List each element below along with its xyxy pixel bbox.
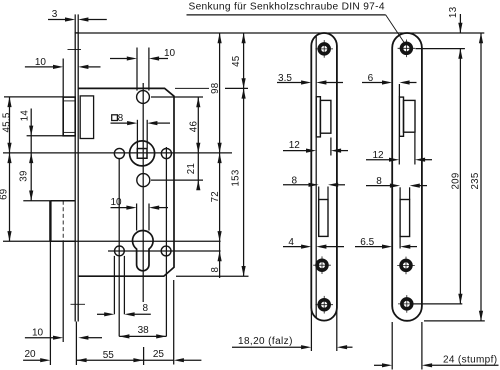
dimension square-8 lines [111,121,171,125]
dimension 14 line [29,109,33,201]
stumpf plate top screw [398,40,416,58]
extension line right screw center down [165,147,167,336]
vertical centerline tick at bottom chain [143,347,145,365]
dimension 69 line [7,153,11,241]
svg-text:69: 69 [0,189,10,200]
faceplate strip left edge [74,33,76,322]
dimension 38 text [138,325,150,336]
dimension 3.5 text [278,73,292,84]
dimension 10 latch lines [25,65,101,69]
extension line 3mm right [77,14,79,32]
dimension square-8 text [118,113,124,124]
svg-text:14: 14 [20,110,31,122]
title underline [187,14,386,16]
dimension 6 lines [362,80,417,84]
extension line latch top left [4,96,63,98]
dimension 8 cylinder text [210,267,221,273]
svg-text:10: 10 [32,328,44,339]
falz plate latch head [320,100,331,133]
dimension 24 stumpf lines [374,363,499,367]
svg-text:55: 55 [103,350,115,361]
dimension 13 text [448,7,459,18]
dimension 3 lines [48,17,107,21]
screw hole left of cylinder [115,246,125,256]
extension line stumpf cutout right up [409,187,411,199]
extension line stumpf latch head right [414,133,416,165]
svg-text:Senkung für Senkholzschraube D: Senkung für Senkholzschraube DIN 97-4 [189,1,385,12]
falz plate middle screw [313,256,331,274]
stumpf plate latch band [399,97,403,136]
dimension 39 text [19,170,30,181]
dimension 38 line [119,334,166,338]
extension line cylinder slot left [136,204,138,231]
dimension 20 text [24,349,36,360]
extension line stumpf plate bottom right [424,320,485,322]
extension line stumpf latch band top [398,84,400,97]
svg-text:12: 12 [289,140,301,151]
dimension 10 top hole lines [110,56,168,60]
extension line faceplate down [75,322,77,366]
extension line through cylinder screw holes [108,250,221,252]
dimension 12 falz text [289,140,301,151]
dimension 12 stumpf text [372,150,384,161]
dimension 18-20 falz text [238,336,293,347]
dimension 153 text [231,169,242,186]
title text Senkung fuer Senkholzschraube DIN 97-4 [189,1,385,12]
dimension 8 cylinder line [218,241,222,278]
dimension 45.5 text [1,112,12,132]
extension line bottom screw center right [412,303,462,305]
extension line cylinder slot right [148,204,150,231]
screw hole right of cylinder [161,246,171,256]
dimension 10 cylinder lines [111,206,169,210]
leader line to countersunk screw [386,15,406,45]
face plate falz outline [311,33,337,321]
extension line latch face [62,59,64,98]
dimension 39 bottom arrow [29,191,33,201]
follower circle [130,141,155,166]
dimension 12 stumpf lines [366,158,432,162]
dimension 21 text [186,163,197,174]
deadbolt top edge [50,200,75,202]
extension line stumpf cutout left down [399,237,401,249]
dimension 12 falz lines [283,149,348,153]
dimension 55 text [103,350,115,361]
dimension 98 line [218,33,222,153]
extension line case bottom right [176,275,249,277]
falz plate bottom screw [315,296,333,314]
faceplate strip right edge [77,33,79,322]
deadbolt face edge [49,201,51,242]
extension line deadbolt face down [49,241,51,365]
screw hole right of follower [161,148,171,158]
dimension 8 bottom text [143,303,149,314]
dimension 72 line [218,153,222,241]
profile cylinder hole [133,230,154,270]
deadbolt bottom edge [50,240,75,242]
dimension 46 text [188,121,199,132]
stumpf plate middle screw [397,257,415,275]
svg-text:21: 21 [186,163,197,174]
svg-text:24 (stumpf): 24 (stumpf) [443,354,497,365]
dimension 21 line [196,153,200,190]
stumpf plate deadbolt cutout [400,200,410,237]
faceplate top edge [75,32,79,34]
svg-text:45.5: 45.5 [1,112,12,132]
dimension 10 bottom lines [25,336,102,340]
svg-text:10: 10 [110,197,122,208]
svg-text:25: 25 [153,349,165,360]
extension line falz latch head right [330,138,332,156]
follower square 8mm [137,149,147,159]
deadbolt retracted dashed line [62,201,64,242]
dimension 98 text [210,83,221,94]
dimension 55 line [76,358,143,362]
extension line dashed bolt line down [62,241,64,342]
dimension square-8 symbol [112,115,118,121]
svg-text:209: 209 [450,172,461,189]
faceplate break tick upper [68,49,82,51]
dimension 3.5 lines [277,80,343,84]
dimension 8 falz text [292,175,298,186]
svg-text:8: 8 [118,113,124,124]
lock case outline [78,88,174,276]
svg-text:10: 10 [35,57,47,68]
dimension 24 stumpf text [443,354,497,365]
dimension 10 latch text [35,57,47,68]
dimension 8 stumpf text [376,176,382,187]
extension line case top right [175,87,248,89]
vertical centerline of lock [142,83,144,302]
falz plate latch band [316,97,320,137]
svg-text:39: 39 [19,170,30,181]
top hole circle [137,91,150,104]
dimension 10 bottom text [32,328,44,339]
extension line hole below follower right [151,179,203,181]
stumpf plate bottom screw [398,295,416,313]
hole below follower [137,174,150,187]
falz step line [315,36,317,318]
extension line cyl screw right edge [123,256,125,314]
dimension 3 text [52,9,58,20]
dimension 14 text [20,110,31,122]
dimension 13 line [458,14,462,59]
stumpf plate latch head [404,100,416,132]
extension line top hole right dia [148,48,150,91]
dimension 209 text [450,172,461,189]
svg-text:3: 3 [52,9,58,20]
horizontal centerline through follower [3,152,232,154]
dimension 72 text [210,191,221,202]
falz plate deadbolt cutout [319,200,328,237]
dimension 25 text [153,349,165,360]
extension line deadbolt top left [23,200,50,202]
dimension 25 line [144,358,202,362]
latch bolt head [63,97,75,136]
extension line stumpf cutout left up [399,187,401,199]
svg-text:18,20 (falz): 18,20 (falz) [238,336,293,347]
falz plate top screw [315,40,333,58]
dimension 8 stumpf lines [366,184,427,188]
extension line top hole left dia [136,48,138,91]
dimension 45 line [242,33,246,88]
extension line falz plate right down [336,310,338,351]
svg-text:153: 153 [231,169,242,186]
extension line top hole right [151,96,203,98]
dimension 10 top hole text [164,48,176,59]
dimension 209 line [458,49,462,304]
extension line cyl screw left edge [113,256,115,314]
svg-text:13: 13 [448,7,459,18]
faceplate break tick lower [71,303,86,305]
dimension 235 text [470,172,481,189]
dimension 8 bottom lines [97,312,151,316]
extension line stumpf plate left down [391,322,393,370]
dimension 18-20 falz lines [232,345,353,349]
svg-text:8: 8 [143,303,149,314]
latch bolt bevel line upper [63,100,75,102]
dimension 45 text [231,56,242,67]
latch bolt bevel line lower [63,131,75,133]
latch body inside case [80,96,93,139]
extension line cylinder center and deadbolt bottom [3,240,221,242]
extension line stumpf latch band down [398,137,400,165]
svg-text:235: 235 [470,172,481,189]
screw hole left of follower [114,148,124,158]
long extension line faceplate top [75,32,484,34]
dimension 4 text [288,237,294,248]
svg-text:38: 38 [138,325,150,336]
extension line square left [136,120,138,149]
extension line latch bottom left [27,135,64,137]
extension line top screw center right [416,48,465,50]
dimension 10 cylinder text [110,197,122,208]
dimension 6.5 text [360,237,374,248]
extension line case right edge down [173,280,175,365]
svg-text:46: 46 [188,121,199,132]
svg-text:20: 20 [24,349,36,360]
dimension 8 falz lines [283,183,345,187]
dimension 4 lines [283,245,344,249]
extension line falz plate left down [310,310,312,351]
dimension 6 text [368,73,374,84]
extension line falz cutout right up [327,187,329,200]
extension line falz cutout left up [318,187,320,200]
svg-text:10: 10 [164,48,176,59]
svg-text:45: 45 [231,56,242,67]
dimension 69 text [0,189,10,200]
dimension 235 line [479,33,483,321]
dimension 6.5 lines [355,245,417,249]
dimension 45.5 line [7,97,11,153]
dimension 153 line [242,88,246,276]
dimension 20 line [23,358,50,362]
extension line 3mm left [74,14,76,32]
extension line left screw center down [118,159,120,337]
extension line stumpf plate right down [421,322,423,370]
face plate stumpf outline [392,33,422,321]
dimension 46 line [196,97,200,153]
extension line square right [146,120,148,149]
